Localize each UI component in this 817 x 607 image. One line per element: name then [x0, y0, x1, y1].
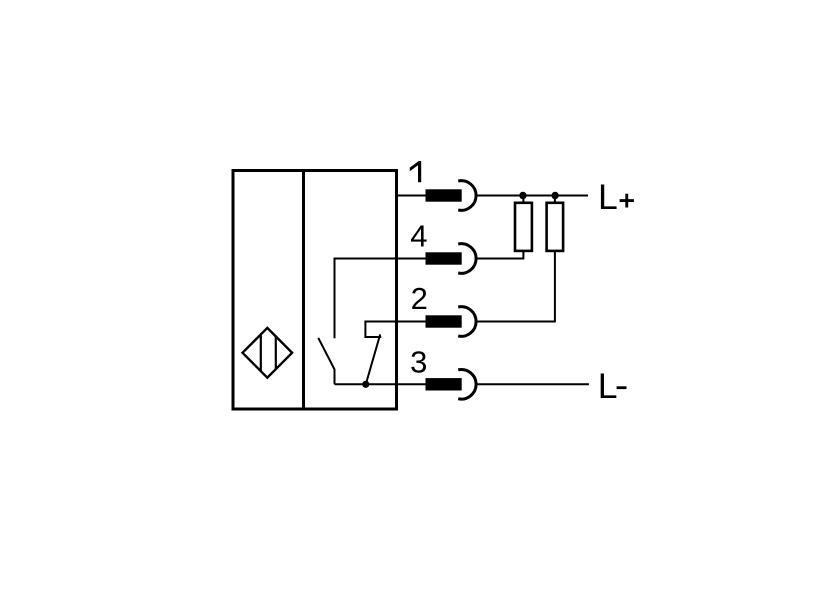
NC contact blade	[366, 334, 380, 384]
junction L+ node B	[551, 192, 558, 199]
resistor load R1 stub top	[522, 196, 524, 204]
wire pin4 internal	[335, 259, 397, 339]
NO contact blade	[318, 338, 334, 384]
resistor load R2 stub top	[554, 196, 556, 204]
wire pin 1 to L+	[478, 195, 589, 197]
pin 3 terminal	[426, 378, 462, 390]
resistor load R2	[547, 203, 564, 251]
wire pin 1 lead	[395, 195, 427, 197]
pin 3 connector arc	[458, 370, 476, 400]
sensor body divider	[302, 171, 305, 410]
pin 4 terminal	[426, 252, 462, 264]
sensor symbol left chord	[260, 331, 262, 375]
junction L+ node A	[519, 192, 526, 199]
pin 1 terminal	[426, 189, 462, 201]
wire pin 4 to resistor R1	[478, 251, 524, 259]
sensor body outline	[233, 171, 397, 410]
junction common node	[362, 381, 369, 388]
sensor symbol right chord	[275, 331, 277, 375]
svg-text:L: L	[598, 366, 618, 406]
wire pin 3 to L-	[478, 383, 589, 385]
svg-text:4: 4	[410, 219, 427, 254]
wire pin 3 lead	[395, 383, 427, 385]
pin 4 connector arc	[458, 244, 476, 274]
wire pin 2 lead	[395, 321, 427, 323]
pin 1 connector arc	[458, 181, 476, 211]
pin 2 connector arc	[458, 307, 476, 337]
svg-text:3: 3	[410, 345, 427, 380]
wire pin 2 to resistor R2	[478, 251, 555, 322]
svg-text:2: 2	[411, 281, 428, 316]
wire pin 4 lead	[395, 258, 427, 260]
svg-text:L: L	[598, 177, 618, 217]
net label L-	[598, 366, 627, 406]
wire pin2 internal hook	[365, 322, 396, 338]
wire common bottom internal	[335, 383, 397, 385]
resistor load R1	[515, 203, 532, 251]
net label L+	[598, 177, 634, 217]
pin 1 label	[410, 161, 421, 182]
pin 2 terminal	[426, 315, 462, 327]
